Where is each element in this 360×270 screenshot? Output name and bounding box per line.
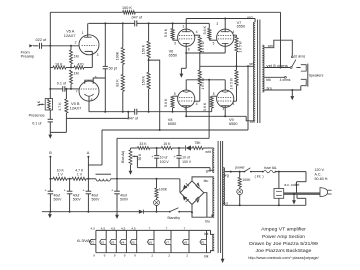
svg-text:500V: 500V: [92, 198, 101, 202]
svg-text:150 K: 150 K: [142, 75, 146, 85]
capacitor .047 uf lower coupling: [127, 109, 139, 121]
svg-text:9: 9: [124, 254, 126, 258]
label wht: [205, 150, 210, 154]
resistor 4.7K feedback: [58, 88, 68, 132]
tube V5 heater: [130, 227, 137, 258]
ground speaker common: [290, 90, 294, 100]
diode bridge top-left: [183, 183, 189, 189]
wire V5B plate to 50pf column: [93, 78, 105, 80]
svg-text:4: 4: [233, 30, 235, 34]
wire heater bus bottom: [96, 251, 214, 259]
label 16 ohms: [294, 55, 306, 59]
transformer T2 power bias winding: [213, 148, 215, 173]
svg-text:P1: P1: [201, 240, 205, 244]
transformer T2 core: [218, 141, 221, 253]
resistor 5.6K grid V9: [203, 96, 217, 112]
tube V6 heater: [147, 227, 154, 258]
resistor 10K 1W rail: [53, 168, 67, 180]
svg-text:16 ohms: 16 ohms: [294, 55, 306, 59]
wire AC hot to plug: [279, 172, 306, 193]
resistor 100K feedback: [122, 6, 135, 14]
svg-text:100 V: 100 V: [160, 160, 170, 164]
capacitor 40uf 500V filter B: [45, 179, 63, 212]
wire upper signal: [88, 22, 209, 24]
svg-text:1 K 5 W: 1 K 5 W: [229, 78, 233, 89]
capacitor 40uf 500V filter A: [83, 179, 101, 212]
svg-text:75K: 75K: [194, 141, 201, 145]
svg-text:yel 8 ohms: yel 8 ohms: [266, 64, 288, 68]
svg-text:4,5: 4,5: [91, 227, 96, 231]
node A: [87, 151, 90, 179]
wire ground bus: [42, 211, 158, 213]
svg-text:0.1 uf: 0.1 uf: [57, 81, 67, 85]
svg-text:+: +: [64, 189, 66, 193]
svg-text:1 K 5 W: 1 K 5 W: [238, 41, 242, 52]
wire screen bus to OT yel tap: [200, 62, 254, 68]
diode bridge top-right: [196, 182, 200, 188]
svg-text:100K: 100K: [116, 51, 120, 60]
svg-text:7: 7: [76, 90, 78, 94]
tube V8 6550: [168, 90, 198, 126]
svg-text:4: 4: [233, 102, 235, 106]
svg-text:150 K: 150 K: [142, 44, 146, 54]
svg-text:100K: 100K: [159, 187, 168, 191]
wire rail to bridge minus: [179, 179, 181, 193]
svg-text:4.7 K: 4.7 K: [58, 102, 62, 111]
svg-text:org: org: [224, 173, 229, 177]
resistor 5.6K grid V6: [164, 23, 178, 40]
wire V6 plate riser: [185, 19, 187, 32]
label 6.3VAC: [77, 239, 94, 243]
svg-text:9: 9: [104, 254, 106, 258]
tube V8 heater: [182, 227, 189, 258]
wire AC to outlet: [278, 171, 280, 189]
ground presence: [48, 132, 66, 138]
svg-text:A: A: [87, 151, 90, 155]
tube V6 6550: [169, 24, 198, 57]
tube V7 6550: [213, 21, 245, 46]
wire V5B cathode to lower wire: [89, 97, 105, 112]
resistor 1M upper: [70, 46, 79, 68]
resistor 150K grid upper: [142, 23, 151, 60]
svg-text:Ampeg VT amplifier: Ampeg VT amplifier: [261, 227, 307, 232]
wire V5A cathode: [91, 51, 93, 67]
wire bridge plus: [204, 193, 207, 218]
lamp neon DC: [154, 200, 160, 212]
svg-text:blu: blu: [204, 179, 209, 183]
capacitor .022 uf input coupling: [35, 38, 48, 49]
svg-text:4: 4: [196, 102, 198, 106]
resistor 1M lower: [70, 70, 79, 90]
svg-text:5 K: 5 K: [37, 100, 41, 106]
resistor 470 V5A cathode: [74, 62, 84, 69]
svg-text:red: red: [223, 201, 228, 205]
svg-text:100K: 100K: [242, 178, 251, 182]
svg-text:V8: V8: [183, 240, 187, 244]
svg-text:V1: V1: [90, 240, 94, 244]
svg-text:4 ohms: 4 ohms: [280, 78, 291, 82]
tube V5A 12AX7 triode: [64, 29, 99, 58]
svg-text:7: 7: [184, 227, 186, 231]
svg-text:red: red: [247, 16, 252, 20]
capacitor .047 uf upper coupling: [131, 15, 143, 26]
wire red AC return: [223, 198, 306, 206]
svg-text:V4: V4: [121, 240, 125, 244]
svg-text:8: 8: [91, 98, 93, 102]
svg-text:3: 3: [216, 22, 218, 26]
wire power cord: [284, 193, 320, 195]
resistor 75K bias: [192, 141, 203, 149]
label 120V AC: [315, 168, 329, 181]
svg-text:100 K: 100 K: [122, 6, 132, 10]
svg-text:2: 2: [168, 254, 170, 258]
tube V1 heater: [89, 227, 96, 258]
svg-text:9: 9: [134, 254, 136, 258]
svg-text:7: 7: [149, 227, 151, 231]
transformer T2 power HV winding: [213, 177, 215, 218]
wire lower signal: [104, 111, 212, 113]
input terminal From Preamp: [21, 44, 39, 58]
capacitor 50 pf bridge column: [103, 23, 118, 111]
svg-text:4,5: 4,5: [101, 227, 106, 231]
svg-text:5: 5: [174, 41, 176, 45]
resistor 5.6K grid V7: [203, 23, 217, 40]
svg-text:6550: 6550: [168, 122, 176, 126]
svg-text:6550: 6550: [169, 53, 177, 57]
svg-text:V6: V6: [148, 240, 152, 244]
svg-text:12AX7: 12AX7: [70, 106, 82, 111]
svg-text:power: power: [235, 166, 245, 170]
wire V5A plate riser: [87, 23, 89, 37]
svg-text:6550: 6550: [237, 25, 245, 29]
label grn power transformer: [206, 169, 211, 173]
title block text: [248, 227, 319, 260]
svg-text:+: +: [83, 189, 85, 193]
wire feedback left column: [49, 12, 51, 98]
svg-text:5.6 K: 5.6 K: [164, 28, 168, 37]
svg-text:4: 4: [196, 30, 198, 34]
svg-text:+: +: [45, 189, 47, 193]
resistor 18K: [53, 62, 66, 69]
resistor 100K bleeder with lamp: [155, 179, 168, 200]
svg-text:( int. ): ( int. ): [255, 174, 264, 178]
svg-text:V5: V5: [131, 240, 135, 244]
inductor choke filter: [96, 174, 112, 181]
transformer T1 secondary winding: [262, 45, 264, 92]
capacitor 10uf 100V bias 1: [151, 148, 169, 168]
potentiometer 5K Presence: [29, 99, 53, 118]
ground bias pot: [129, 165, 133, 175]
wire secondary grn 16 ohm tap: [264, 40, 293, 58]
plug AC: [320, 188, 332, 197]
wire secondary yel 8 ohm tap: [264, 64, 292, 69]
tube V2 heater: [100, 227, 107, 258]
lamp neon AC: [237, 189, 243, 207]
svg-text:9: 9: [93, 254, 95, 258]
wire feedback column right: [280, 12, 282, 67]
wire 150K junction to bias line: [148, 59, 161, 131]
svg-text:Drawn by Joe Piazza 5/21/99: Drawn by Joe Piazza 5/21/99: [249, 241, 319, 246]
svg-text:http://www.onestock.com/~piazz: http://www.onestock.com/~piazza/joepage/: [248, 256, 319, 260]
svg-text:3: 3: [97, 53, 99, 57]
fuse 6A: [255, 166, 279, 178]
svg-text:fuse 6A.: fuse 6A.: [264, 166, 277, 170]
tube V5B 12AX7 triode: [70, 76, 99, 111]
node B: [49, 151, 52, 179]
svg-text:+: +: [111, 189, 113, 193]
lamp P1 pilot heater: [200, 230, 207, 252]
svg-text:3: 3: [183, 24, 185, 28]
svg-text:82 K: 82 K: [116, 79, 120, 87]
svg-text:500V: 500V: [73, 198, 82, 202]
node grid junction 1M column: [70, 45, 72, 47]
svg-text:3: 3: [222, 107, 224, 111]
svg-text:V3: V3: [111, 240, 115, 244]
wire bias ground return to grn: [137, 168, 213, 171]
svg-text:7: 7: [166, 227, 168, 231]
svg-text:.047 uf: .047 uf: [127, 116, 139, 120]
svg-text:1 K 5 W: 1 K 5 W: [201, 41, 205, 52]
ground cord safety: [292, 193, 296, 205]
ground transformer core: [221, 141, 225, 263]
svg-text:10 uf: 10 uf: [182, 156, 190, 160]
svg-text:wht: wht: [205, 150, 210, 154]
svg-text:2: 2: [151, 254, 153, 258]
capacitor 40uf 500V filter 2: [64, 179, 82, 212]
svg-text:1: 1: [82, 31, 84, 35]
capacitor 0.1 uf presence: [32, 110, 53, 132]
svg-text:15 K: 15 K: [163, 142, 171, 146]
capacitor 10uf 100V bias 2: [174, 148, 192, 168]
svg-text:1M: 1M: [74, 54, 79, 58]
wire lower cathode bus and ground link: [117, 79, 225, 179]
rectifier bridge diamond: [180, 181, 204, 205]
svg-text:33 K: 33 K: [139, 142, 147, 146]
tube V9 6550: [213, 90, 238, 126]
svg-text:Joe Piazza's BackStage: Joe Piazza's BackStage: [256, 248, 313, 253]
svg-text:brn: brn: [267, 86, 272, 90]
transformer T2 primary winding: [223, 168, 225, 206]
svg-text:470: 470: [77, 62, 83, 66]
svg-text:5.6 K: 5.6 K: [203, 102, 207, 111]
svg-text:blk: blk: [266, 78, 271, 82]
resistor 1K 5W screen V6: [194, 35, 205, 66]
wire B+ riser from A line: [247, 66, 249, 130]
svg-text:500V: 500V: [120, 198, 129, 202]
resistor 150K grid lower: [142, 60, 151, 112]
wire feedback top: [50, 11, 280, 13]
ground filter out: [115, 214, 119, 220]
svg-text:6550: 6550: [229, 122, 237, 126]
node 18K/470 line: [70, 67, 72, 69]
resistor 1K 5W screen V9: [229, 66, 238, 101]
resistor 15K bias: [161, 142, 172, 150]
wire upper plate bus to OT: [186, 16, 255, 22]
switch power: [235, 166, 262, 173]
svg-text:4,5: 4,5: [121, 227, 126, 231]
svg-text:Standby: Standby: [167, 216, 180, 220]
svg-text:2: 2: [75, 40, 77, 44]
diode bridge bottom-right: [195, 197, 199, 203]
diode bias rectifier: [186, 145, 191, 150]
svg-text:.047 uf: .047 uf: [131, 15, 143, 19]
switch impedance selector: [292, 60, 301, 68]
transformer T1 output primary winding: [253, 22, 255, 121]
capacitor 40uf 500V filter out: [111, 179, 129, 214]
svg-text:5.6 K: 5.6 K: [164, 98, 168, 107]
svg-text:8: 8: [188, 47, 190, 51]
svg-text:50 pf: 50 pf: [109, 67, 118, 71]
resistor 4.7K 1W rail: [72, 168, 86, 180]
outlet a.c.: [274, 183, 299, 198]
wire AC neutral from plug: [297, 195, 306, 206]
wire A to B+ distribution line: [88, 130, 248, 165]
resistor 33K bias: [137, 142, 149, 150]
svg-text:10 uf: 10 uf: [160, 156, 168, 160]
wire heater bus top: [96, 230, 214, 236]
svg-text:4,5: 4,5: [111, 227, 116, 231]
svg-text:50 K: 50 K: [138, 153, 142, 161]
potentiometer 50K Bias Adj: [121, 148, 142, 168]
svg-text:500V: 500V: [54, 198, 63, 202]
svg-text:1M: 1M: [74, 72, 79, 76]
wire bias line: [131, 147, 214, 149]
resistor 82K PI plate load: [116, 64, 125, 111]
svg-text:blk: blk: [204, 255, 209, 259]
svg-text:9: 9: [114, 254, 116, 258]
svg-text:12AX7: 12AX7: [64, 33, 76, 38]
wire secondary blk 4 ohm tap: [264, 76, 290, 82]
svg-text:Presence: Presence: [29, 114, 45, 118]
wire V5A grid: [43, 45, 79, 47]
svg-text:Power Amp Section: Power Amp Section: [262, 234, 306, 239]
svg-text:5: 5: [174, 92, 176, 96]
svg-text:blu: blu: [205, 220, 210, 224]
tube V7 heater: [164, 227, 171, 258]
svg-text:5: 5: [213, 41, 215, 45]
svg-text:100 V: 100 V: [182, 160, 192, 164]
tube V4 heater: [120, 227, 127, 258]
svg-text:5.6 K: 5.6 K: [203, 25, 207, 34]
diode bridge bottom-left: [183, 196, 189, 202]
wire lower plate bus to OT brn: [185, 106, 255, 124]
svg-text:Speakers: Speakers: [309, 73, 324, 77]
svg-text:1 V: 1 V: [58, 173, 64, 177]
wire upper cathode bus and ground: [180, 43, 226, 77]
transformer T2 power heater winding: [213, 234, 215, 250]
svg-text:V2: V2: [101, 240, 105, 244]
svg-text:.022 uf: .022 uf: [35, 38, 48, 42]
wire V7 plate riser: [224, 18, 226, 32]
wire 4.7K tap to lower wire: [66, 111, 129, 119]
svg-text:2: 2: [186, 254, 188, 258]
jack Speakers: [301, 64, 324, 87]
svg-text:18 K: 18 K: [55, 62, 63, 66]
wire B+ rail: [49, 178, 180, 180]
svg-text:5: 5: [213, 92, 215, 96]
ground main bus: [48, 212, 52, 219]
svg-text:grn: grn: [268, 44, 273, 48]
resistor 100K pilot dropper: [238, 171, 251, 189]
wire secondary brn common: [264, 86, 300, 91]
wire bridge AC top to blu: [192, 177, 214, 183]
svg-text:a.c. outlet: a.c. outlet: [284, 183, 299, 187]
svg-text:Preamp: Preamp: [21, 53, 35, 58]
svg-text:4,5: 4,5: [131, 227, 136, 231]
resistor 100K PI plate load: [116, 23, 125, 64]
resistor 5.6K grid V8: [164, 96, 178, 112]
svg-text:1 V: 1 V: [77, 173, 83, 177]
svg-text:V7: V7: [165, 240, 169, 244]
transformer T1 core: [258, 20, 260, 124]
switch Standby: [167, 208, 192, 220]
wire bridge bottom to standby and blu: [191, 205, 214, 224]
diode ground bus: [139, 210, 170, 214]
svg-text:Bias Adj: Bias Adj: [121, 151, 125, 163]
svg-text:50-60 H.: 50-60 H.: [315, 177, 329, 181]
resistor 1K 5W screen V7: [233, 35, 242, 66]
resistor 1K 5W screen V8: [194, 66, 205, 101]
wire 18K 470 cathode line: [50, 67, 92, 69]
svg-text:0.1 uf: 0.1 uf: [32, 121, 42, 125]
wire org AC hot: [224, 171, 245, 178]
svg-text:grn: grn: [206, 169, 211, 173]
capacitor 0.1 uf V5B grid: [50, 81, 79, 91]
tube V3 heater: [110, 227, 117, 258]
